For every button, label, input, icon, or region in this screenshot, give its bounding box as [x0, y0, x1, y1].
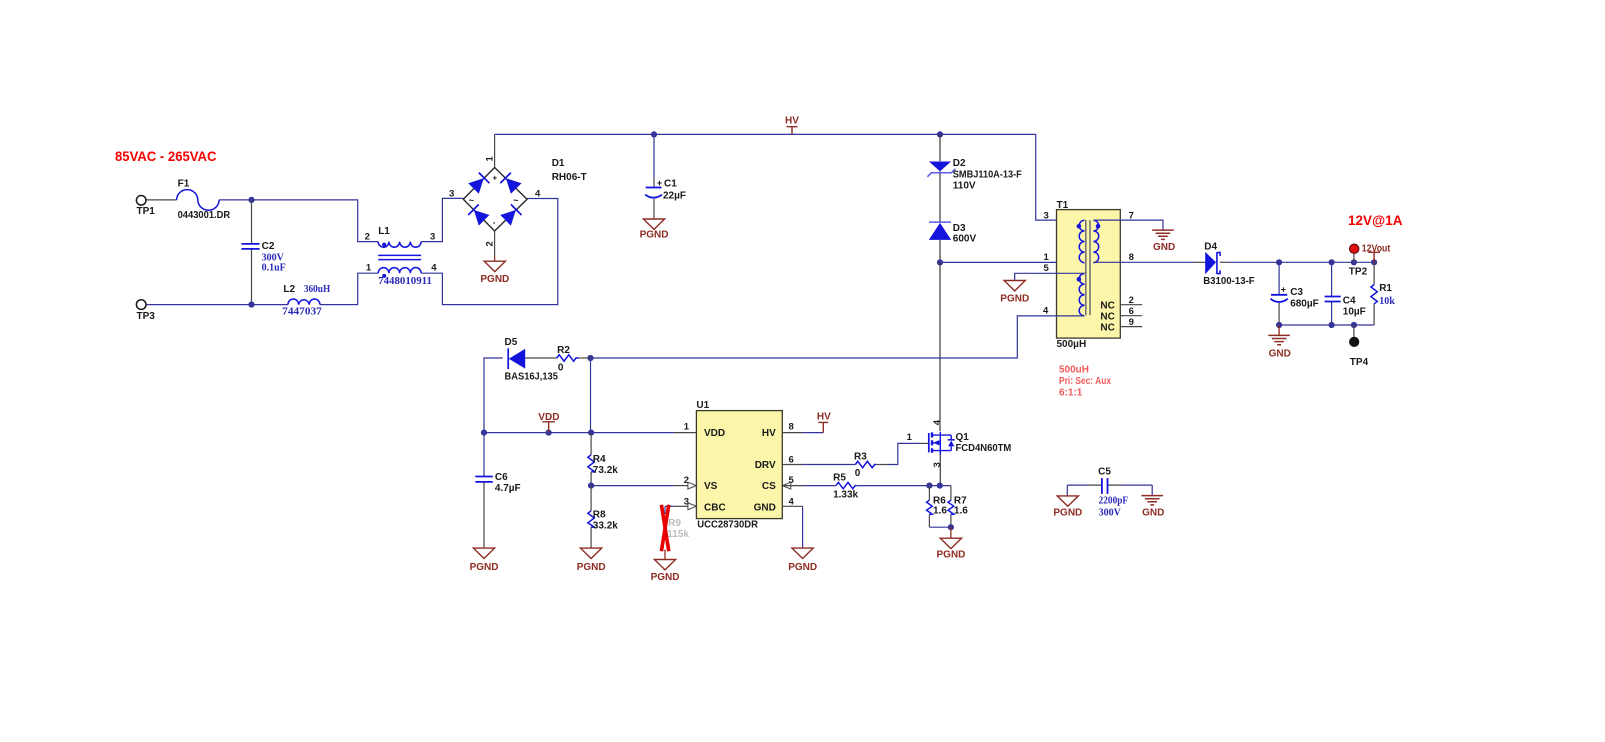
svg-text:D1: D1 — [552, 158, 565, 169]
svg-text:C1: C1 — [664, 178, 677, 189]
capacitor C6 — [483, 433, 485, 476]
svg-text:680µF: 680µF — [1290, 298, 1319, 309]
ground PGND R8 — [581, 548, 602, 558]
svg-text:300V: 300V — [1099, 507, 1122, 518]
svg-text:GND: GND — [1153, 242, 1175, 253]
svg-text:HV: HV — [785, 116, 799, 127]
capacitor C5 — [1067, 484, 1088, 486]
svg-text:NC: NC — [1100, 301, 1114, 312]
svg-text:HV: HV — [762, 428, 776, 439]
svg-text:C6: C6 — [495, 472, 508, 483]
svg-text:1: 1 — [366, 263, 372, 274]
wire C1 lead bottom — [653, 199, 655, 219]
svg-text:D5: D5 — [505, 337, 518, 348]
wire TP1 to F1 — [147, 199, 177, 201]
svg-text:GND: GND — [1269, 349, 1291, 360]
wire D3 node to Q1 drain — [939, 262, 941, 431]
node junction C3 bottom — [1276, 322, 1282, 328]
testpoint TP3 — [136, 300, 146, 310]
svg-text:TP1: TP1 — [137, 206, 156, 217]
svg-text:DRV: DRV — [755, 460, 776, 471]
svg-text:PGND: PGND — [1053, 508, 1082, 519]
svg-text:TP2: TP2 — [1349, 266, 1368, 277]
svg-text:VS: VS — [704, 481, 718, 492]
Q1 drain connection — [933, 432, 951, 455]
svg-text:2200pF: 2200pF — [1099, 496, 1129, 507]
svg-text:HV: HV — [817, 412, 831, 423]
U1 pin5 arrow — [782, 482, 791, 489]
node junction C3 top — [1276, 259, 1282, 265]
svg-text:C4: C4 — [1343, 295, 1356, 306]
svg-text:C3: C3 — [1290, 287, 1303, 298]
svg-text:R8: R8 — [593, 509, 606, 520]
svg-text:8: 8 — [1129, 252, 1134, 263]
svg-text:PGND: PGND — [640, 230, 669, 241]
svg-text:~: ~ — [469, 196, 474, 206]
capacitor C4 — [1331, 262, 1333, 325]
svg-text:PGND: PGND — [1000, 294, 1029, 305]
wire D5 to R2 — [525, 357, 557, 359]
node junction VS — [588, 483, 594, 489]
svg-text:33.2k: 33.2k — [593, 520, 618, 531]
wire D5 cathode branch — [484, 358, 503, 433]
node junction C4 bottom — [1329, 322, 1335, 328]
wire output bottom bus — [1279, 324, 1374, 326]
svg-text:GND: GND — [754, 503, 776, 514]
svg-text:-: - — [493, 218, 496, 227]
testpoint TP4 — [1353, 325, 1355, 338]
svg-text:R9: R9 — [668, 518, 681, 529]
svg-text:7448010911: 7448010911 — [378, 276, 432, 287]
wire T1 pin4 to aux net — [591, 316, 1085, 358]
node junction C2 bottom — [248, 302, 254, 308]
svg-text:+: + — [657, 178, 662, 188]
wire U1 pin4 GND to PGND — [782, 505, 802, 507]
resistor R2 — [557, 355, 579, 361]
node junction R4 top — [588, 430, 594, 436]
svg-text:1: 1 — [485, 156, 496, 162]
choke L1 core — [378, 255, 421, 259]
diode D5 — [507, 348, 509, 369]
resistor R9 omitted (crossed out) — [664, 506, 666, 514]
bridge diode top-right — [500, 173, 521, 194]
svg-text:1: 1 — [1044, 252, 1050, 263]
net flag 12Vout — [1368, 252, 1380, 262]
bridge diode bottom-right — [500, 204, 521, 225]
capacitor C3 polarized — [1278, 262, 1280, 294]
resistor R3 — [855, 461, 876, 467]
svg-text:CS: CS — [762, 481, 776, 492]
wire choke winding2 to bridge pin4 — [421, 199, 558, 305]
svg-text:8: 8 — [789, 421, 794, 432]
wire choke winding1 to bridge pin3 — [421, 198, 463, 241]
net flag HV on bus — [787, 127, 798, 135]
svg-text:4: 4 — [1043, 305, 1049, 316]
svg-text:9: 9 — [1129, 317, 1134, 328]
svg-text:RH06-T: RH06-T — [552, 172, 587, 183]
svg-text:360uH: 360uH — [304, 284, 331, 295]
svg-text:D2: D2 — [953, 158, 966, 169]
svg-text:PGND: PGND — [480, 274, 509, 285]
U1 pin3 arrow — [688, 503, 697, 510]
svg-text:2: 2 — [485, 241, 496, 246]
svg-text:12Vout: 12Vout — [1362, 244, 1391, 255]
svg-text:C2: C2 — [262, 241, 275, 252]
wire R5 to CS node — [857, 485, 951, 487]
node junction VDD left — [481, 430, 487, 436]
svg-text:3: 3 — [932, 462, 943, 467]
svg-text:R1: R1 — [1379, 283, 1392, 294]
Q1 body arrow — [933, 440, 939, 445]
wire T1 pin7 to GND — [1093, 220, 1163, 230]
wire VS line — [591, 485, 674, 487]
svg-text:22µF: 22µF — [663, 190, 686, 201]
node junction R1 top — [1371, 259, 1377, 265]
bridge pin2 stub down — [494, 231, 496, 256]
wire TP3 to L2 — [147, 304, 288, 306]
T1 aux winding — [1079, 274, 1084, 316]
bridge diode top-left — [468, 173, 489, 194]
svg-text:B3100-13-F: B3100-13-F — [1203, 276, 1255, 287]
svg-text:C5: C5 — [1098, 467, 1111, 478]
svg-text:73.2k: 73.2k — [593, 465, 618, 476]
common-mode choke L1 winding1 — [378, 242, 421, 248]
node junction Q1 source — [937, 483, 943, 489]
bridge diode bottom-left — [468, 204, 489, 225]
T1 primary winding — [1079, 220, 1084, 262]
capacitor C2 leads — [251, 200, 253, 305]
svg-text:CBC: CBC — [704, 503, 726, 514]
svg-text:VDD: VDD — [538, 412, 559, 423]
Q1 body diode — [948, 439, 955, 441]
svg-text:TP4: TP4 — [1350, 357, 1369, 368]
svg-text:R5: R5 — [833, 473, 846, 484]
svg-text:85VAC - 265VAC: 85VAC - 265VAC — [115, 148, 217, 164]
svg-text:R4: R4 — [593, 454, 606, 465]
svg-text:4: 4 — [789, 496, 795, 507]
node junction TP4 — [1351, 322, 1357, 328]
svg-text:PGND: PGND — [651, 572, 680, 583]
svg-text:UCC28730DR: UCC28730DR — [697, 520, 758, 531]
net flag HV U1 — [818, 422, 828, 432]
wire C5 left to PGND — [1066, 485, 1068, 496]
svg-text:+: + — [1281, 285, 1286, 295]
svg-text:1.33k: 1.33k — [833, 489, 858, 500]
wire T1 pin5 inside — [1057, 272, 1085, 274]
resistor R6 — [928, 486, 930, 501]
capacitor C2 — [241, 244, 259, 249]
ground GND output — [1278, 325, 1280, 335]
T1 secondary winding — [1093, 220, 1098, 262]
svg-text:500µH: 500µH — [1057, 339, 1087, 350]
testpoint TP1 — [136, 196, 146, 206]
wire D3 node to T1 pin1 — [940, 261, 1085, 263]
ground PGND C1 — [643, 219, 664, 229]
svg-text:600V: 600V — [953, 234, 977, 245]
wire U1 pin5 CS to R5 — [782, 485, 802, 487]
svg-text:D3: D3 — [953, 223, 966, 234]
ground PGND Q1 — [940, 538, 961, 548]
Q1 gate bar — [928, 433, 930, 452]
common-mode choke L1 winding2 — [378, 268, 421, 274]
node junction C1 — [651, 131, 657, 137]
svg-text:3: 3 — [449, 189, 454, 200]
wire R6 R7 bottom — [929, 526, 951, 528]
ground PGND T1 pin5 — [1004, 281, 1025, 291]
bridge pin1 stub up — [494, 134, 496, 167]
op-amp U1 UCC28730DR body — [696, 411, 782, 519]
svg-text:1: 1 — [684, 421, 690, 432]
svg-text:4: 4 — [431, 263, 437, 274]
svg-text:+: + — [493, 174, 498, 183]
fuse F1 — [177, 190, 220, 211]
resistor R8 — [590, 486, 592, 511]
diode D4 — [1205, 252, 1216, 274]
svg-text:0.1uF: 0.1uF — [262, 262, 286, 273]
ground GND C5 — [1141, 496, 1163, 505]
svg-text:FCD4N60TM: FCD4N60TM — [956, 443, 1012, 454]
svg-text:NC: NC — [1100, 322, 1114, 333]
node junction C4 top — [1329, 259, 1335, 265]
svg-text:6: 6 — [789, 454, 794, 465]
svg-text:2: 2 — [365, 231, 370, 242]
svg-text:0: 0 — [558, 363, 564, 374]
wire D4 to output node — [1220, 261, 1227, 263]
svg-text:110V: 110V — [953, 180, 976, 191]
svg-text:1.6: 1.6 — [933, 506, 947, 517]
red X over R9 — [661, 505, 668, 551]
svg-text:0: 0 — [855, 468, 861, 479]
svg-text:TP3: TP3 — [137, 311, 156, 322]
node junction D3 bottom — [937, 259, 943, 265]
resistor R4 — [590, 433, 592, 455]
svg-text:4.7µF: 4.7µF — [495, 483, 521, 494]
node junction R2 right — [587, 355, 593, 361]
node junction R7 bottom — [948, 524, 954, 530]
choke L1 polarity dot winding1 — [382, 243, 386, 247]
node junction TP2 — [1351, 259, 1357, 265]
svg-text:2: 2 — [1129, 295, 1134, 306]
svg-text:L2: L2 — [283, 284, 295, 295]
svg-text:D4: D4 — [1204, 242, 1217, 253]
svg-text:U1: U1 — [696, 400, 709, 411]
svg-text:0443001.DR: 0443001.DR — [178, 210, 231, 221]
svg-text:PGND: PGND — [937, 550, 966, 561]
svg-text:~: ~ — [513, 196, 518, 206]
transformer T1 body — [1057, 210, 1121, 339]
svg-text:1.6: 1.6 — [954, 506, 968, 517]
svg-text:PGND: PGND — [577, 562, 606, 573]
svg-text:1: 1 — [907, 432, 913, 443]
svg-text:Q1: Q1 — [956, 432, 970, 443]
ground PGND U1 — [792, 548, 813, 558]
svg-text:500uH: 500uH — [1059, 365, 1089, 376]
svg-text:R3: R3 — [854, 452, 867, 463]
T1 core — [1086, 220, 1090, 315]
svg-text:7447037: 7447037 — [282, 307, 322, 318]
wire T1 pin5 to PGND — [1015, 273, 1057, 280]
capacitor C1 polarized — [646, 187, 662, 189]
ground PGND CBC — [654, 560, 675, 570]
choke L1 polarity dot winding2 — [382, 274, 386, 278]
NC pin stubs T1 — [1120, 305, 1142, 327]
svg-text:6:1:1: 6:1:1 — [1059, 387, 1083, 398]
svg-text:BAS16J,135: BAS16J,135 — [505, 371, 559, 382]
wire C1 lead top — [653, 134, 655, 178]
ground PGND bridge — [484, 261, 505, 271]
wire node to L1 winding1 left — [252, 200, 379, 242]
svg-text:3: 3 — [1044, 210, 1049, 221]
wire C5 right to GND — [1151, 485, 1153, 495]
resistor R7 — [950, 486, 952, 501]
resistor R5 — [836, 482, 857, 488]
Q1 channel segments — [931, 432, 933, 452]
svg-text:VDD: VDD — [704, 428, 725, 439]
diode D3 — [929, 221, 951, 223]
svg-text:F1: F1 — [178, 179, 190, 190]
svg-text:R2: R2 — [557, 345, 570, 356]
testpoint TP2 — [1353, 254, 1355, 262]
resistor R1 — [1373, 262, 1375, 325]
wire U1 pin3 CBC — [665, 505, 674, 507]
svg-text:6: 6 — [1129, 306, 1134, 317]
wire L2 to choke winding2 — [320, 273, 378, 304]
svg-text:T1: T1 — [1057, 200, 1069, 211]
inductor L2 — [288, 299, 320, 305]
svg-text:PGND: PGND — [470, 562, 499, 573]
svg-text:GND: GND — [1142, 508, 1164, 519]
svg-text:NC: NC — [1100, 312, 1114, 323]
svg-text:4: 4 — [932, 419, 943, 425]
node junction VDD flag — [546, 430, 552, 436]
wire HV bus — [495, 134, 1085, 220]
svg-text:115k: 115k — [667, 529, 689, 540]
node junction R6 — [926, 483, 932, 489]
node junction C2 top — [248, 197, 254, 203]
wire U1 pin6 DRV to R3 — [782, 464, 802, 466]
svg-text:L1: L1 — [378, 226, 390, 237]
tvs diode D2 — [929, 162, 951, 172]
wire U1 pin8 to HV flag — [782, 432, 802, 434]
svg-text:3: 3 — [430, 231, 435, 242]
bridge rectifier D1 outline — [463, 168, 527, 232]
svg-text:PGND: PGND — [788, 562, 817, 573]
svg-text:5: 5 — [1044, 263, 1050, 274]
ground PGND C5 — [1057, 496, 1078, 506]
wire D2 D3 chain vertical — [939, 134, 941, 262]
wire R3 to Q1 gate — [876, 464, 887, 466]
wire Q1 source down — [939, 455, 941, 486]
ground GND T1 pin7 — [1152, 230, 1174, 239]
net flag VDD — [542, 422, 555, 433]
node junction D2 top — [937, 131, 943, 137]
wire T1 pin8 to D4 — [1093, 261, 1195, 263]
ground PGND C6 — [473, 548, 494, 558]
svg-text:10k: 10k — [1379, 296, 1395, 307]
svg-text:12V@1A: 12V@1A — [1348, 213, 1403, 228]
svg-text:10µF: 10µF — [1343, 307, 1366, 318]
wire to PGND Q1 — [950, 527, 952, 538]
svg-text:4: 4 — [535, 189, 541, 200]
svg-text:Pri: Sec: Aux: Pri: Sec: Aux — [1059, 376, 1111, 387]
U1 pin2 arrow — [688, 482, 697, 489]
svg-text:SMBJ110A-13-F: SMBJ110A-13-F — [953, 170, 1022, 181]
wire F1 to node C2 — [219, 199, 251, 201]
wire VDD line — [484, 432, 674, 434]
wire aux node down to VDD line — [590, 358, 592, 433]
